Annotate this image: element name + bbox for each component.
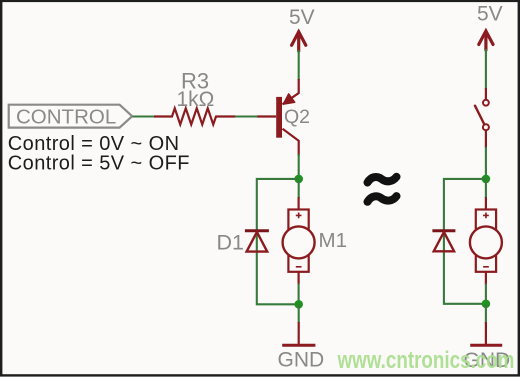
transistor Q2 collector lead xyxy=(283,129,299,156)
motor right bottom lead xyxy=(485,272,487,285)
wire freewheel loop left xyxy=(257,179,299,304)
diode D1 cathode bar xyxy=(245,229,269,232)
ground symbol right bar xyxy=(470,344,502,347)
motor M1 rotor circle xyxy=(283,226,315,258)
wire node to motor top right xyxy=(485,179,487,198)
ground symbol right stem xyxy=(485,322,487,345)
resistor R3 xyxy=(154,108,236,124)
motor right body rect xyxy=(476,210,496,272)
switch top contact circle xyxy=(483,100,489,106)
wire node to ground right xyxy=(485,304,487,323)
transistor Q2 base bar xyxy=(276,97,282,138)
wire freewheel loop right xyxy=(444,179,486,304)
svg-text:Control = 0V ~ ON: Control = 0V ~ ON xyxy=(8,133,180,155)
wire node to motor top xyxy=(298,179,300,198)
junction node bottom-left circuit xyxy=(294,300,303,309)
svg-text:www.cntronics.com: www.cntronics.com xyxy=(337,346,515,374)
wire node to ground xyxy=(298,304,300,323)
wire switch to node xyxy=(485,147,487,176)
diode D1 triangle xyxy=(247,232,268,252)
svg-text:D1: D1 xyxy=(217,230,244,254)
junction node top-right circuit xyxy=(482,175,491,184)
motor M1 minus mark xyxy=(296,266,302,268)
diode right cathode bar xyxy=(432,229,455,232)
transistor Q2 emitter lead xyxy=(283,79,299,104)
wire collector to node xyxy=(298,154,300,176)
junction node bottom-right circuit xyxy=(482,300,491,309)
wire flag to resistor xyxy=(133,115,156,117)
switch bottom contact circle xyxy=(483,124,489,130)
switch lever xyxy=(475,106,484,125)
approx equal symbol xyxy=(368,177,397,202)
junction node top-left circuit xyxy=(294,175,303,184)
svg-text:M1: M1 xyxy=(319,229,347,252)
motor M1 body rect xyxy=(288,210,308,272)
svg-text:CONTROL: CONTROL xyxy=(16,105,116,128)
transistor Q2 base lead xyxy=(257,115,276,117)
ground symbol left bar xyxy=(282,344,315,347)
svg-text:Q2: Q2 xyxy=(284,106,310,128)
motor right plus mark xyxy=(483,213,489,219)
power symbol 5V arrow (left) xyxy=(292,32,306,51)
transistor Q2 emitter arrow (PNP) xyxy=(283,94,295,104)
net label flag CONTROL xyxy=(9,105,133,128)
motor right minus mark xyxy=(483,266,489,268)
motor right rotor circle xyxy=(470,226,502,258)
motor M1 plus mark xyxy=(296,213,302,219)
motor M1 bottom lead xyxy=(298,272,300,285)
motor right top lead xyxy=(485,197,487,210)
switch top lead xyxy=(485,88,487,100)
svg-text:5V: 5V xyxy=(477,2,503,25)
wire motor bottom to node xyxy=(298,284,300,305)
diode right triangle xyxy=(434,232,454,251)
svg-text:1kΩ: 1kΩ xyxy=(177,88,215,111)
wire motor bottom to node right xyxy=(485,284,487,304)
svg-text:Control = 5V ~ OFF: Control = 5V ~ OFF xyxy=(8,153,190,175)
wire resistor to base xyxy=(235,115,258,117)
svg-text:5V: 5V xyxy=(289,6,315,29)
switch bottom lead xyxy=(485,130,487,148)
svg-text:GND: GND xyxy=(278,348,325,371)
motor M1 top lead xyxy=(298,197,300,210)
power symbol 5V arrow (right) xyxy=(479,31,493,50)
wire 5V to switch xyxy=(485,49,487,89)
wire 5V to emitter xyxy=(298,50,300,80)
ground symbol left stem xyxy=(298,322,300,345)
